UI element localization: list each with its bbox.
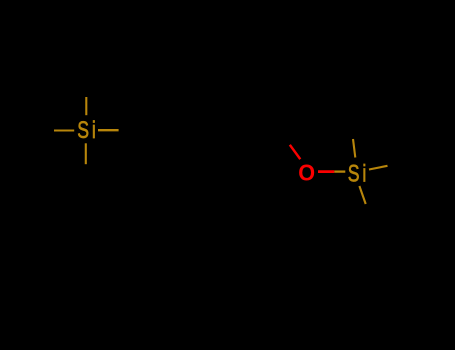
bond: Si1 methyl left (gold half) [54, 129, 74, 131]
svg-text:Si: Si [348, 160, 369, 188]
bond: C to O (red half) [290, 145, 301, 159]
wire: Si1 up methyl (invisible black half) [85, 83, 87, 97]
wire: Si1 left methyl (invisible black half) [34, 129, 54, 131]
svg-text:Si: Si [77, 116, 98, 144]
wire: carbon chain Si1 to C (invisible black half) [119, 129, 215, 131]
wire: Si2 right methyl (invisible black half) [388, 162, 407, 166]
bond: O to Si2 (gold half) [334, 170, 345, 172]
bond: Si1 to alkyne C (gold half) [98, 129, 119, 131]
atom O (silyl ether oxygen) [298, 160, 315, 186]
svg-text:O: O [298, 160, 315, 186]
wire: Si2 down methyl (invisible black half) [366, 204, 372, 222]
wire: Si2 up methyl (invisible black half) [351, 122, 353, 139]
wire: carbon chain C to O (invisible black half) [215, 129, 290, 145]
bond: O to Si2 (red half) [318, 170, 334, 173]
bond: Si2 methyl up (gold half) [353, 139, 355, 158]
wire: Si1 down methyl (invisible black half) [85, 164, 87, 178]
bond: Si1 methyl up (gold half) [85, 97, 87, 115]
atom Si2 (right trimethylsilyl) [348, 160, 369, 188]
bond: Si2 methyl down (gold half) [359, 186, 365, 204]
atom Si1 (left trimethylsilyl) [77, 116, 98, 144]
bond: Si2 methyl right (gold half) [369, 166, 388, 170]
bond: Si1 methyl down (gold half) [85, 143, 87, 164]
